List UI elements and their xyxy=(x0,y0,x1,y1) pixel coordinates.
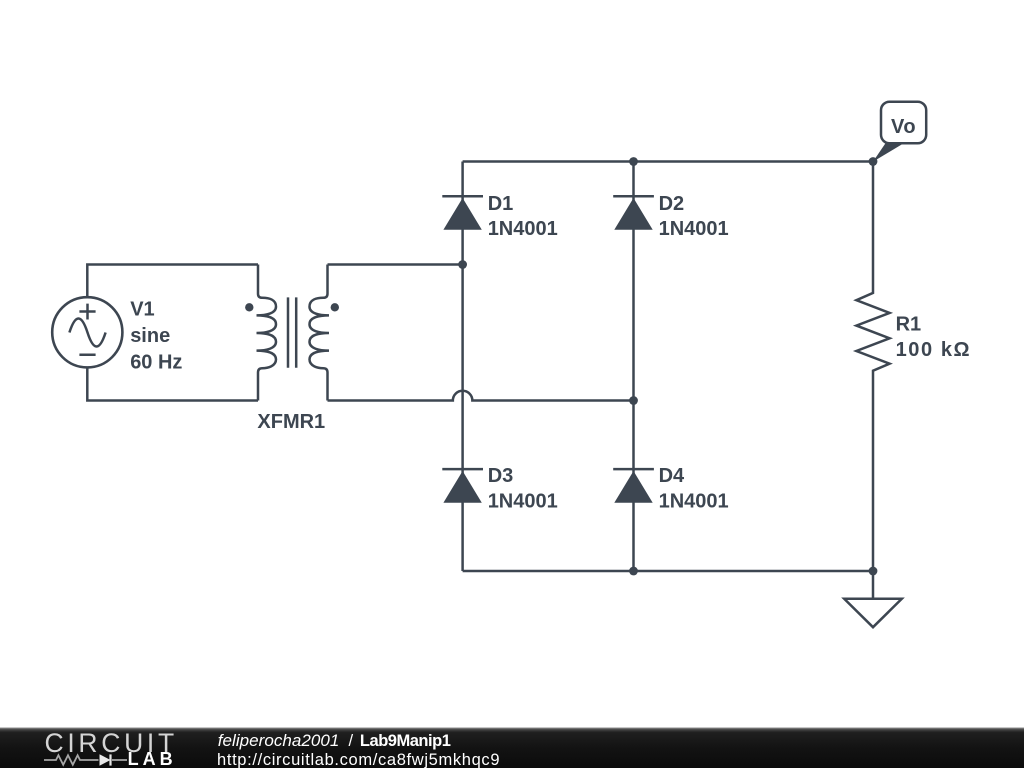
diode D2 xyxy=(613,196,654,230)
primary polarity dot xyxy=(245,303,253,311)
wire V1 top to transformer primary top xyxy=(87,265,258,298)
svg-text:Lab9Manip1: Lab9Manip1 xyxy=(360,732,451,750)
diode D3 xyxy=(442,469,483,503)
wire V1 bottom to transformer primary bottom xyxy=(87,367,258,400)
svg-text:LAB: LAB xyxy=(128,749,177,768)
diode D4 xyxy=(613,469,654,503)
svg-text:/: / xyxy=(349,732,354,750)
secondary winding + lead xyxy=(310,265,330,401)
wire bridge right branch xyxy=(632,162,635,572)
logo diode triangle xyxy=(100,754,111,765)
svg-text:XFMR1: XFMR1 xyxy=(257,411,325,433)
junction dot bottom rail D4 xyxy=(629,567,638,576)
junction dot secondary top / D1 anode xyxy=(458,260,467,269)
secondary polarity dot xyxy=(331,303,339,311)
junction dot bottom rail ground xyxy=(869,567,878,576)
primary lead + winding xyxy=(257,265,277,401)
core lines xyxy=(288,297,296,367)
wire secondary top to bridge xyxy=(328,263,463,266)
flag Vo xyxy=(873,102,926,162)
svg-text:Vo: Vo xyxy=(891,116,916,138)
ground xyxy=(844,571,902,627)
wire secondary bottom with hop over left branch xyxy=(328,391,634,401)
junction dot top rail D2 xyxy=(629,157,638,166)
resistor R1 xyxy=(856,162,889,572)
svg-text:feliperocha2001: feliperocha2001 xyxy=(218,731,339,750)
junction dot secondary bottom / D2 anode xyxy=(629,396,638,405)
wire bridge left branch xyxy=(461,162,464,572)
voltage source V1 xyxy=(52,297,122,367)
wire top rail xyxy=(463,160,873,163)
junction dot top rail Vo xyxy=(869,157,878,166)
transformer XFMR1 xyxy=(245,265,339,401)
logo resistor-diode glyph xyxy=(44,754,127,765)
svg-text:http://circuitlab.com/ca8fwj5m: http://circuitlab.com/ca8fwj5mkhqc9 xyxy=(217,751,500,768)
diode D1 xyxy=(442,196,483,230)
footer bar xyxy=(0,728,1024,768)
wire bottom rail xyxy=(463,570,873,573)
